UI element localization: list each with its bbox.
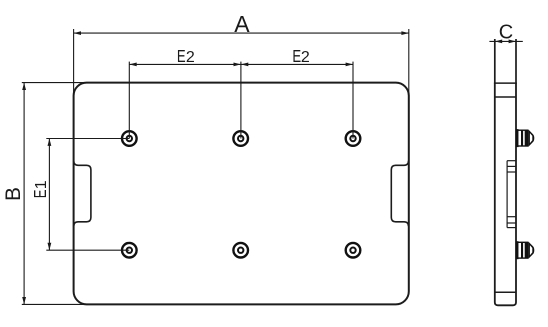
svg-text:1: 1 (33, 180, 50, 189)
hole bottom-right (346, 243, 361, 258)
hole bottom-left (122, 243, 137, 258)
dimension C (489, 40, 522, 44)
svg-text:E: E (177, 47, 186, 66)
E2 extension lines to holes (128, 62, 130, 139)
left tab bump (74, 161, 91, 227)
svg-text:B: B (2, 187, 25, 201)
dimension E1 (46, 139, 129, 251)
right tab bump (391, 161, 408, 227)
svg-text:C: C (499, 22, 513, 44)
side view outline (495, 83, 516, 306)
svg-text:2: 2 (186, 49, 195, 66)
side view C extension lines (494, 39, 496, 84)
svg-text:A: A (234, 11, 250, 37)
hole bottom-middle (233, 243, 248, 258)
knob (spring plunger) bottom (516, 241, 534, 259)
side view horizontal edges (495, 82, 516, 84)
hole top-left (122, 131, 137, 146)
plate body (front view rounded rectangle) (74, 83, 409, 305)
hole top-middle (233, 131, 248, 146)
dimension B (22, 83, 88, 305)
svg-text:2: 2 (301, 49, 310, 66)
knob (spring plunger) top (516, 129, 534, 147)
side view tab slot (507, 161, 516, 228)
dimension E2 right (241, 63, 353, 67)
svg-text:E: E (31, 189, 50, 198)
dimension E2 left (129, 63, 241, 67)
hole top-right (346, 131, 361, 146)
svg-text:E: E (292, 47, 301, 66)
dimension A line (74, 29, 409, 96)
